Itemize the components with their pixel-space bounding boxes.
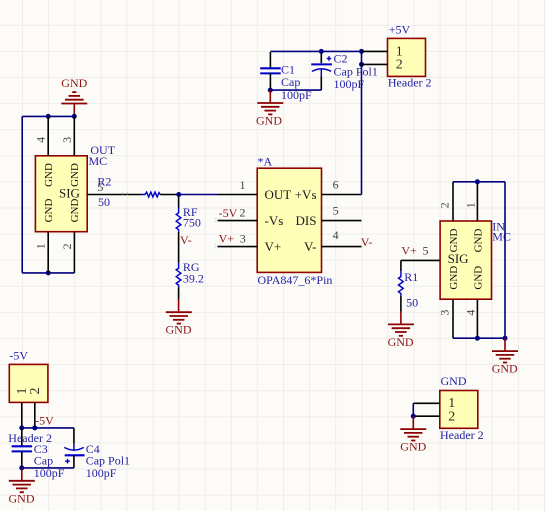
header P2 (+5V, Header 2) bbox=[362, 22, 432, 89]
svg-text:SIG: SIG bbox=[448, 251, 469, 266]
svg-text:GND: GND bbox=[166, 323, 192, 337]
wire end marker (op-amp pin 3) bbox=[215, 244, 220, 249]
svg-text:4: 4 bbox=[34, 137, 48, 143]
svg-text:4: 4 bbox=[463, 310, 477, 316]
svg-text:SIG: SIG bbox=[59, 186, 80, 201]
junction at header pin 2 bbox=[32, 425, 37, 430]
junction at C1 bottom bbox=[268, 88, 273, 93]
svg-text:2: 2 bbox=[438, 202, 452, 208]
svg-text:MC: MC bbox=[492, 230, 511, 244]
svg-text:GND: GND bbox=[43, 199, 55, 223]
svg-text:DIS: DIS bbox=[296, 213, 317, 228]
wire C1 bottom to C2 bottom bbox=[270, 89, 321, 91]
svg-text:GND: GND bbox=[448, 229, 460, 253]
svg-text:-5V: -5V bbox=[9, 348, 28, 362]
svg-text:V-: V- bbox=[304, 239, 317, 254]
wire right rail vertical bbox=[504, 182, 506, 338]
junction at header pin 1 bbox=[19, 425, 24, 430]
resistor R2 bbox=[97, 175, 178, 209]
svg-text:GND: GND bbox=[388, 335, 414, 349]
resistor RG 39.2 bbox=[176, 260, 204, 299]
svg-text:100pF: 100pF bbox=[334, 77, 365, 91]
svg-text:MC: MC bbox=[89, 154, 108, 168]
svg-text:V+: V+ bbox=[401, 243, 417, 257]
svg-text:Header 2: Header 2 bbox=[388, 75, 432, 89]
junction at GND header pin 2 bbox=[411, 414, 416, 419]
svg-text:GND: GND bbox=[9, 491, 35, 505]
svg-text:GND: GND bbox=[69, 163, 81, 187]
ground GND (below RG) bbox=[166, 299, 192, 336]
svg-text:Cap Pol1: Cap Pol1 bbox=[334, 64, 378, 78]
junction at R2 / RF bbox=[176, 192, 181, 197]
svg-text:+Vs: +Vs bbox=[295, 187, 317, 202]
wire top-left horizontal bbox=[22, 115, 74, 117]
wire bottom-left horizontal bbox=[22, 272, 74, 274]
wire right connector top bbox=[453, 181, 505, 183]
wire end marker (SIG wire) bbox=[123, 192, 128, 197]
svg-text:-Vs: -Vs bbox=[265, 213, 284, 228]
svg-text:-5V: -5V bbox=[35, 414, 54, 428]
svg-text:R1: R1 bbox=[404, 270, 418, 284]
svg-text:6: 6 bbox=[333, 178, 339, 192]
svg-text:Header 2: Header 2 bbox=[440, 428, 484, 442]
svg-text:1: 1 bbox=[34, 243, 48, 249]
svg-text:OPA847_6*Pin: OPA847_6*Pin bbox=[258, 273, 333, 287]
svg-text:50: 50 bbox=[98, 195, 110, 209]
svg-text:C2: C2 bbox=[334, 51, 348, 65]
ground GND (bottom left) bbox=[9, 468, 35, 505]
svg-text:5: 5 bbox=[423, 243, 429, 257]
junction at +5V rail top bbox=[359, 49, 364, 54]
ground GND (below GND header) bbox=[400, 416, 426, 453]
svg-text:GND: GND bbox=[43, 163, 55, 187]
wire C3 bottom to C4 bottom bbox=[22, 467, 74, 469]
svg-text:*A: *A bbox=[258, 155, 273, 169]
wire end marker (RG bottom) bbox=[176, 295, 181, 300]
svg-text:V+: V+ bbox=[265, 239, 282, 254]
label OUT MC (left connector) bbox=[89, 143, 116, 168]
svg-text:GND: GND bbox=[473, 229, 485, 253]
svg-text:V-: V- bbox=[180, 233, 192, 247]
svg-text:2: 2 bbox=[396, 58, 403, 73]
resistor RF 750 bbox=[176, 197, 201, 263]
capacitor C1 bbox=[260, 52, 312, 102]
svg-text:V-: V- bbox=[361, 235, 373, 249]
junction at pin 4 bottom bbox=[475, 336, 480, 341]
wire R2 to op-amp pin 1 bbox=[179, 194, 218, 196]
wire left rail vertical bbox=[21, 116, 23, 273]
wire +5V rail vertical down to op-amp pin 6 bbox=[361, 51, 363, 194]
ground GND (below C1) bbox=[256, 90, 283, 127]
svg-text:GND: GND bbox=[256, 114, 282, 128]
junction at right rail bottom bbox=[503, 336, 508, 341]
connector P3 (right, IN MC) bbox=[401, 182, 492, 338]
capacitor C2 (polarized) bbox=[311, 51, 378, 91]
svg-text:1: 1 bbox=[463, 202, 477, 208]
junction at pin 1 top bbox=[475, 179, 480, 184]
svg-text:+5V: +5V bbox=[389, 22, 411, 36]
svg-text:GND: GND bbox=[441, 374, 467, 388]
svg-text:50: 50 bbox=[406, 296, 418, 310]
svg-text:1: 1 bbox=[240, 178, 246, 192]
svg-text:V+: V+ bbox=[219, 232, 235, 246]
svg-text:2: 2 bbox=[448, 409, 455, 424]
wire end marker (op-amp pin 2) bbox=[215, 218, 220, 223]
junction at pin 1 bottom bbox=[46, 270, 51, 275]
svg-text:GND: GND bbox=[473, 266, 485, 290]
svg-text:2: 2 bbox=[60, 243, 74, 249]
svg-text:2: 2 bbox=[28, 388, 43, 395]
capacitor C3 bbox=[12, 428, 65, 480]
svg-text:750: 750 bbox=[183, 216, 201, 230]
svg-text:3: 3 bbox=[240, 232, 246, 246]
svg-text:GND: GND bbox=[69, 199, 81, 223]
ground GND (below R1) bbox=[388, 312, 414, 349]
capacitor C4 (polarized) bbox=[64, 428, 130, 480]
svg-text:100pF: 100pF bbox=[86, 466, 117, 480]
svg-text:39.2: 39.2 bbox=[183, 272, 204, 286]
wire right connector bottom bbox=[453, 337, 505, 339]
ground GND (flipped, above left connector) bbox=[61, 76, 87, 117]
resistor R1 50 bbox=[399, 260, 419, 311]
header P4 (-5V, Header 2) bbox=[8, 348, 52, 445]
junction at C3 bottom bbox=[19, 465, 24, 470]
svg-text:3: 3 bbox=[60, 137, 74, 143]
svg-text:3: 3 bbox=[438, 310, 452, 316]
svg-text:2: 2 bbox=[240, 206, 246, 220]
svg-text:-5V: -5V bbox=[219, 206, 238, 220]
ground GND (right rail) bbox=[492, 338, 518, 375]
connector P1 (left, OUT MC) bbox=[34, 116, 126, 273]
junction at pin 4 top bbox=[46, 114, 51, 119]
svg-text:5: 5 bbox=[333, 204, 339, 218]
svg-text:GND: GND bbox=[400, 440, 426, 454]
wire top (C1 to header) bbox=[270, 50, 361, 52]
header P5 (GND, Header 2) bbox=[413, 374, 483, 442]
junction at C2 top bbox=[319, 49, 324, 54]
svg-text:4: 4 bbox=[333, 228, 339, 242]
svg-text:GND: GND bbox=[492, 362, 518, 376]
svg-text:OUT: OUT bbox=[265, 187, 292, 202]
op-amp U1 OPA847 bbox=[218, 155, 362, 287]
junction at header pin 2 bbox=[359, 62, 364, 67]
junction at pin 3 top bbox=[72, 114, 77, 119]
svg-text:GND: GND bbox=[448, 266, 460, 290]
svg-text:R2: R2 bbox=[97, 175, 111, 189]
wire GND header corner bbox=[412, 403, 414, 416]
label IN MC (right connector) bbox=[492, 220, 511, 244]
wire -5V header to C4 bbox=[22, 427, 74, 429]
svg-text:GND: GND bbox=[61, 76, 87, 90]
